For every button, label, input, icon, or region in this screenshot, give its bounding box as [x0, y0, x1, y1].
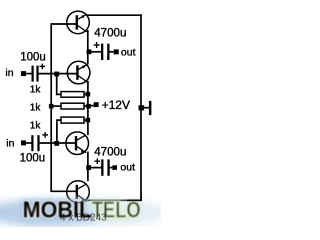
wire Q1 collector to out node: [87, 30, 89, 52]
wire R3 right lead: [84, 119, 87, 121]
wire bottom rail faint mid segment: [88, 199, 128, 201]
wire T1 base: [51, 23, 78, 25]
supply bar terminal: [149, 101, 152, 115]
transistor Q2: [67, 61, 90, 84]
wire right rail: [140, 14, 142, 201]
svg-text:4700u: 4700u: [94, 27, 126, 40]
svg-text:in: in: [5, 67, 13, 79]
svg-text:1k: 1k: [30, 102, 42, 113]
wire supply stub: [144, 107, 149, 109]
wire left bus: [50, 23, 52, 192]
node R1 right: [86, 92, 91, 97]
svg-text:4 x BD243: 4 x BD243: [60, 212, 107, 223]
wire top rail: [86, 14, 142, 16]
wire C3 to Q3 base: [40, 142, 77, 144]
capacitor C3 100u: [31, 132, 48, 151]
wire R3 left lead: [57, 120, 62, 141]
out terminal 2: [112, 165, 117, 170]
svg-text:4700u: 4700u: [94, 145, 126, 158]
resistor R2 1k: [61, 103, 84, 109]
wire Q2 emitter to out node: [87, 52, 89, 65]
wire right rail bottom segment over watermark: [140, 192, 142, 201]
wire Q4 collector to out node 2: [87, 168, 89, 182]
wire input2 to C3: [26, 142, 32, 144]
wire node to R1: [57, 76, 62, 94]
wire Q3 emitter to out node 2: [87, 152, 89, 169]
wire bottom rail: [87, 199, 142, 201]
resistor R3 1k: [61, 117, 84, 123]
wire C4 to out terminal 2: [110, 167, 113, 169]
wire R2 right lead: [84, 105, 87, 107]
wire bottom rail right segment over watermark: [127, 199, 142, 201]
svg-text:in: in: [6, 137, 14, 149]
wire to +12V terminal: [89, 105, 94, 107]
capacitor C1 100u: [32, 64, 46, 82]
wire R1 right lead: [84, 93, 87, 95]
capacitor C4 4700u: [95, 158, 110, 175]
svg-text:out: out: [120, 161, 135, 173]
wire resistor bus Q2 collector to Q3 collector: [87, 81, 89, 135]
node R3 right: [86, 118, 91, 123]
svg-text:+12V: +12V: [102, 98, 130, 112]
svg-text:1k: 1k: [30, 120, 42, 131]
svg-text:out: out: [121, 46, 136, 58]
transistor Q1: [67, 11, 90, 34]
watermark glow band: [0, 201, 170, 225]
node input2 junction: [54, 141, 59, 146]
svg-text:100u: 100u: [20, 153, 46, 165]
node supply on right rail: [139, 105, 145, 110]
out terminal 1: [114, 49, 119, 54]
wire C2 to out terminal: [110, 51, 114, 53]
wire input1 to C1: [26, 73, 32, 75]
node R2 left on bus: [49, 104, 54, 109]
svg-text:100u: 100u: [20, 52, 46, 64]
wire out node 2 to C4: [89, 167, 102, 169]
wire C1 to Q2 base: [39, 73, 78, 75]
input terminal 2: [21, 140, 26, 145]
svg-text:1k: 1k: [30, 84, 42, 95]
wire T4 base: [51, 190, 78, 192]
node out2 junction: [86, 165, 91, 170]
transistor Q4 bottom arc faint overdraw: [68, 196, 89, 203]
node R2 right: [86, 104, 91, 109]
watermark text MOBILTELO: [23, 197, 141, 223]
input terminal 1: [21, 71, 26, 76]
transistor Q4: [67, 181, 90, 204]
resistor R1 1k: [61, 92, 84, 98]
+12V terminal square: [94, 102, 99, 107]
node out1 junction: [87, 49, 92, 54]
wire R2 left lead: [51, 105, 62, 107]
wire out node to C2: [89, 51, 101, 53]
capacitor C2 4700u: [94, 42, 110, 60]
node input1 junction: [54, 72, 59, 77]
transistor Q3: [66, 132, 89, 155]
